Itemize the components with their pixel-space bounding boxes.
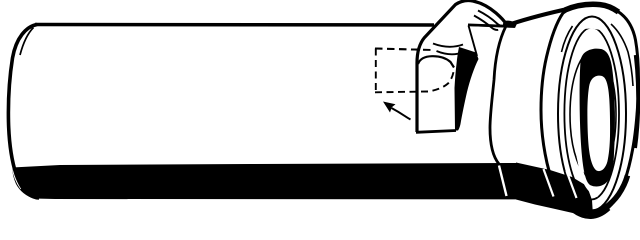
pipe collar arc 2 [437,51,465,54]
pipe tip bead arc 2 [474,16,498,30]
bottom shadow band of tank [12,163,520,199]
arrow head [383,102,396,113]
outer rim thick top arc [565,4,619,12]
cap left silhouette [490,26,506,164]
white slit where rim ring crosses shadow [567,171,577,198]
ring1 double stroke upper-left [562,26,573,52]
cast shadow under cap [516,163,593,216]
dashed ghost rectangle top edge [375,49,433,51]
junction blob [503,21,517,28]
rim ring 2 [564,28,619,200]
white slit left tip of band [13,167,22,189]
dashed hidden edge bottom [375,72,454,92]
elbow face top edge [418,56,454,67]
inner bottom rim crescent [566,176,628,213]
outer rim bottom stroke reinforcement [573,209,609,218]
tank top edge segment right of pipe [468,25,514,27]
rim ring 3 [570,51,616,179]
outer rim right thick edge [635,55,638,148]
pipe collar arc 1 [433,44,463,47]
pipe tip bead arc 1 [478,11,503,26]
cap outer rim outline [541,4,638,217]
white gap between shadow and hub ring [577,148,598,196]
white slit where cap silhouette crosses band [499,166,507,197]
inner black ring [580,49,615,187]
tank left outline [8,25,39,199]
rim ring 1 [558,17,626,211]
elbow bottom edge [416,131,456,133]
corner shading tick [20,28,34,56]
curved rotation arrow tail [392,108,411,120]
right inner double arc [611,24,633,86]
erase ring2 top [580,27,602,29]
tank top edge segment right of pipe (redrawn over fill) [468,25,514,27]
pipe right edge behind tank line [469,26,478,57]
elbow side dark face + collar wedge [455,47,479,131]
inner white opening [587,76,610,171]
dashed ghost rectangle left edge [375,49,377,93]
elbow/pipe left outline and tip dome [417,0,506,132]
cap top silhouette edge [511,8,572,24]
white slit where outer ellipse crosses shadow [544,169,554,197]
tank top edge line [35,23,434,27]
dashed ghost top edge (visible over elbow bend) [375,49,433,51]
elbow + pipe white silhouette fill [417,0,506,132]
